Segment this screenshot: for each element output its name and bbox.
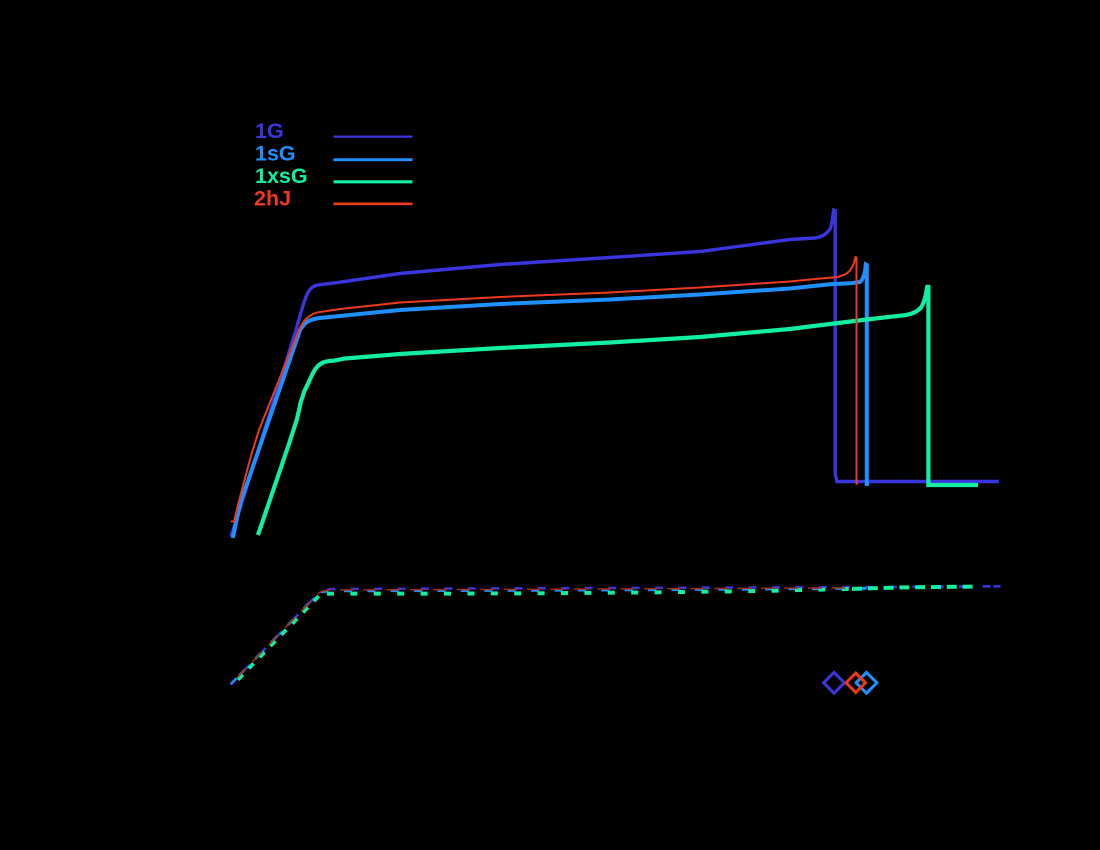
svg-text:1G: 1G [255,119,284,143]
dashed curve 1G (blue dashed) [231,586,1002,684]
curve 1G solid (blue) [231,210,999,537]
svg-text:1xsG: 1xsG [255,164,308,188]
dashed curve 1sG (dodger dashed) [231,588,868,684]
curve 1xsG solid (spring green) [258,287,978,535]
marker diamond red [846,673,865,692]
svg-text:1sG: 1sG [255,142,296,166]
curve 2hJ solid (red) [231,257,858,522]
svg-text:2hJ: 2hJ [254,187,291,211]
marker diamond dodger [856,672,877,693]
dashed curve 1G end dash (blue dashed) [994,585,1001,588]
dashed curve 1sG end dash (dodger dashed) [859,587,867,590]
dashed curve 1xsG flat (green dashed) [321,589,851,594]
dashed curve 1sG start dash (dodger dashed) [231,678,237,684]
legend line 1G [334,136,413,138]
dashed curve 1xsG tail (green dashed) [850,587,978,589]
dashed curve 2hJ (red dashed) [232,588,856,684]
legend line 1sG [334,158,413,161]
curve 1sG solid (dodger blue) [233,265,869,539]
marker diamond blue [824,672,845,693]
dashed curve 1xsG rise (green dashed) [233,594,321,685]
legend line 1xsG [334,180,413,183]
legend line 2hJ [334,203,413,206]
